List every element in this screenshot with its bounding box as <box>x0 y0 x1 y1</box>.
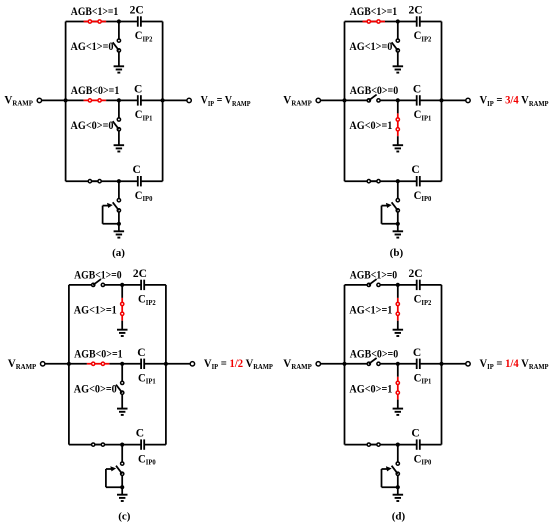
wire red closed segment AGB<0> (a) <box>84 99 107 101</box>
wire AG<0> (b) to ground <box>397 100 399 113</box>
ground below AG<0> (a) <box>114 145 125 151</box>
wire left bus vertical <box>344 22 346 182</box>
wire top branch middle segment <box>105 284 142 286</box>
switch AG<0> (c) contact circles <box>121 381 124 384</box>
arrowhead feedback (c) <box>110 466 116 471</box>
svg-text:AG<1>=0: AG<1>=0 <box>71 41 114 53</box>
ground below AG<1> (d) <box>393 330 404 336</box>
node ground junction (d) <box>396 485 400 489</box>
wire ground stub <box>121 487 123 495</box>
wire top branch right segment <box>141 21 163 23</box>
ground below AG<1> (c) <box>117 330 128 336</box>
switch bottom sampling switch closed (a) <box>88 180 101 182</box>
switch AG<0> (b) contact circles <box>396 118 399 121</box>
wire output segment <box>442 363 466 365</box>
node right bus / output junction (c) <box>164 362 168 366</box>
switch bottom sampling switch closed (b) <box>367 180 380 182</box>
switch AGB<1> (c) contact circles <box>92 283 95 286</box>
wire middle branch left segment <box>69 363 87 365</box>
svg-text:C: C <box>411 164 419 176</box>
wire bottom branch left segment <box>345 444 368 446</box>
switch AGB<0> (d) open blade <box>369 358 377 364</box>
wire red closed segment AG<1> (c) <box>121 298 123 321</box>
switch AG<0> (a) contact circles <box>117 118 120 121</box>
svg-text:(a): (a) <box>112 247 125 259</box>
wire bottom branch right segment <box>141 180 163 182</box>
node left bus / VRAMP junction (c) <box>67 362 71 366</box>
svg-text:(b): (b) <box>390 247 404 259</box>
switch bottom sampling switch closed (d) <box>367 444 380 446</box>
terminal VIP output <box>190 362 194 366</box>
wire middle branch left segment <box>66 99 84 101</box>
wire top branch left segment <box>66 21 84 23</box>
ground bottom (c) <box>117 495 128 501</box>
wire AG<0> (a) to ground <box>118 100 120 118</box>
switch bottom sampling switch closed (c) <box>92 444 105 446</box>
wire top branch middle segment <box>106 21 138 23</box>
wire feedback loop (b) <box>382 223 398 225</box>
svg-text:AG<1>=1: AG<1>=1 <box>349 305 392 317</box>
ground below AG<1> (a) <box>114 66 125 72</box>
ground bottom (b) <box>393 231 404 237</box>
wire red closed segment AGB<1> (b) <box>363 21 386 23</box>
wire output segment <box>442 99 466 101</box>
switch AGB<1> (b) contact circles <box>367 20 370 23</box>
switch AG<0> (a) open blade <box>113 121 119 129</box>
wire middle branch right segment <box>420 99 442 101</box>
node right bus / output junction (b) <box>439 98 443 102</box>
svg-text:AGB<0>=1: AGB<0>=1 <box>74 349 123 361</box>
wire middle branch middle segment <box>106 99 138 101</box>
ground below AG<1> (b) <box>393 66 404 72</box>
wire feedback loop (c) <box>106 486 122 488</box>
switch AGB<1> (a) contact circles <box>88 20 91 23</box>
wire right bus vertical <box>441 22 443 182</box>
wire output segment <box>163 99 187 101</box>
wire red closed segment AG<0> (d) <box>397 377 399 400</box>
switch auto-zero (a) open blade <box>113 202 119 210</box>
wire red closed segment AG<0> (b) <box>397 113 399 136</box>
switch AG<1> (d) contact circles <box>396 302 399 305</box>
wire middle branch left segment <box>345 99 368 101</box>
wire AG<0> (c) to ground <box>121 364 123 382</box>
svg-text:AG<1>=0: AG<1>=0 <box>349 41 392 53</box>
node left bus / VRAMP junction (d) <box>342 362 346 366</box>
switch auto-zero (c) contact circles <box>121 462 124 465</box>
node right bus / output junction (a) <box>161 98 165 102</box>
node top junction (a) <box>117 19 121 23</box>
capacitor CIP2 2C (d) <box>417 280 420 290</box>
svg-text:AGB<1>=0: AGB<1>=0 <box>350 270 398 282</box>
terminal VIP output <box>187 98 191 102</box>
switch auto-zero (b) contact circles <box>396 199 399 202</box>
ground below AG<0> (b) <box>393 145 404 151</box>
capacitor CIP2 2C (b) <box>417 16 420 26</box>
ground below AG<0> (c) <box>117 409 128 415</box>
svg-text:AGB<0>=0: AGB<0>=0 <box>350 349 399 361</box>
ground bottom (d) <box>393 495 404 501</box>
capacitor CIP1 C (b) <box>417 95 420 105</box>
svg-text:C: C <box>413 83 421 95</box>
wire top branch left segment <box>345 21 363 23</box>
switch AGB<1> (d) contact circles <box>367 283 370 286</box>
wire top branch through closed switch <box>363 21 386 23</box>
wire output segment <box>166 363 190 365</box>
terminal VIP output <box>466 98 470 102</box>
node middle junction (c) <box>120 362 124 366</box>
svg-text:C: C <box>413 347 421 359</box>
wire AG<1> (d) to ground <box>397 285 399 298</box>
svg-text:2C: 2C <box>408 5 422 17</box>
node ground junction (a) <box>117 222 121 226</box>
wire right bus vertical <box>441 285 443 445</box>
node ground junction (b) <box>396 222 400 226</box>
wire top branch right segment <box>420 21 442 23</box>
svg-text:AG<0>=0: AG<0>=0 <box>71 120 114 132</box>
wire ground stub <box>397 487 399 495</box>
node left bus / VRAMP junction (a) <box>64 98 68 102</box>
switch AGB<1> (d) open blade <box>369 279 377 285</box>
wire top branch right segment <box>144 284 166 286</box>
wire bottom branch middle segment <box>371 180 417 182</box>
switch AG<1> (a) open blade <box>113 42 119 50</box>
wire left bus vertical <box>65 22 67 182</box>
svg-text:AGB<1>=1: AGB<1>=1 <box>350 6 398 18</box>
wire bottom branch middle segment <box>92 180 138 182</box>
ground below AG<0> (d) <box>393 409 404 415</box>
node left bus / VRAMP junction (b) <box>342 98 346 102</box>
wire bottom branch right segment <box>144 444 166 446</box>
node top junction (c) <box>120 283 124 287</box>
capacitor CIP2 2C (c) <box>141 280 144 290</box>
wire top branch right segment <box>420 284 442 286</box>
node right bus / output junction (d) <box>439 362 443 366</box>
wire feedback loop (d) <box>382 486 398 488</box>
arrowhead feedback (b) <box>386 203 392 208</box>
node ground junction (c) <box>120 485 124 489</box>
svg-text:C: C <box>132 164 140 176</box>
switch AGB<0> (b) open blade <box>369 95 377 101</box>
wire AG<1> (c) to ground <box>121 285 123 298</box>
wire middle branch right segment <box>144 363 166 365</box>
wire top branch middle segment <box>385 21 417 23</box>
node middle junction (d) <box>396 362 400 366</box>
wire middle branch left segment <box>345 363 368 365</box>
terminal VRAMP input <box>45 363 69 365</box>
switch AGB<0> (c) contact circles <box>92 362 95 365</box>
wire switch to ground node <box>397 212 399 224</box>
svg-text:AG<0>=1: AG<0>=1 <box>349 383 392 395</box>
wire bottom branch middle segment <box>371 444 417 446</box>
node bottom junction (d) <box>396 443 400 447</box>
wire switch to ground node <box>118 212 120 224</box>
wire AG<1> (a) to ground <box>118 22 120 40</box>
capacitor CIP0 C (c) <box>141 439 144 449</box>
wire bottom junction to switch <box>397 181 399 198</box>
switch AG<1> (b) contact circles <box>396 39 399 42</box>
wire left bus vertical <box>344 285 346 445</box>
switch AG<1> (b) open blade <box>392 42 398 50</box>
switch AG<0> (d) contact circles <box>396 381 399 384</box>
wire middle branch middle segment <box>380 99 417 101</box>
capacitor CIP0 C (d) <box>417 439 420 449</box>
switch auto-zero (d) contact circles <box>396 462 399 465</box>
wire switch to ground node <box>397 475 399 487</box>
svg-text:2C: 2C <box>408 268 422 280</box>
wire bottom junction to switch <box>121 445 123 462</box>
arrowhead feedback (d) <box>386 466 392 471</box>
switch AGB<0> (d) contact circles <box>367 362 370 365</box>
svg-text:AG<0>=1: AG<0>=1 <box>349 120 392 132</box>
wire right bus vertical <box>162 22 164 182</box>
terminal VIP output <box>466 362 470 366</box>
svg-text:AGB<1>=0: AGB<1>=0 <box>74 270 122 282</box>
svg-text:C: C <box>136 427 144 439</box>
wire left bus vertical <box>68 285 70 445</box>
wire right bus vertical <box>165 285 167 445</box>
terminal VRAMP input <box>321 363 345 365</box>
ground bottom (a) <box>114 231 125 237</box>
wire switch to ground node <box>121 475 123 487</box>
svg-text:AG<1>=1: AG<1>=1 <box>74 305 117 317</box>
node top junction (b) <box>396 19 400 23</box>
node top junction (d) <box>396 283 400 287</box>
node middle junction (a) <box>117 98 121 102</box>
wire bottom branch middle segment <box>95 444 141 446</box>
wire bottom branch right segment <box>420 444 442 446</box>
svg-text:AGB<1>=1: AGB<1>=1 <box>71 6 119 18</box>
wire ground stub <box>118 224 120 232</box>
node bottom junction (b) <box>396 179 400 183</box>
capacitor CIP0 C (a) <box>138 176 141 186</box>
wire red closed segment AGB<1> (a) <box>84 21 107 23</box>
terminal VRAMP input <box>42 99 66 101</box>
svg-text:AG<0>=0: AG<0>=0 <box>74 383 117 395</box>
wire AG<0> (d) to ground <box>397 364 399 377</box>
wire middle branch right segment <box>420 363 442 365</box>
switch AGB<0> (b) contact circles <box>367 99 370 102</box>
wire middle branch right segment <box>141 99 163 101</box>
wire top branch left segment <box>345 284 368 286</box>
wire red closed segment AGB<0> (c) <box>87 363 110 365</box>
wire feedback loop (a) <box>103 223 119 225</box>
wire top branch left segment <box>69 284 92 286</box>
wire bottom junction to switch <box>118 181 120 198</box>
node middle junction (b) <box>396 98 400 102</box>
capacitor CIP1 C (a) <box>138 95 141 105</box>
svg-text:AGB<0>=0: AGB<0>=0 <box>350 85 399 97</box>
arrowhead feedback (a) <box>107 203 113 208</box>
svg-text:AGB<0>=1: AGB<0>=1 <box>71 85 120 97</box>
svg-text:2C: 2C <box>133 268 147 280</box>
wire top branch through closed switch <box>84 21 107 23</box>
switch AG<0> (c) open blade <box>116 385 122 393</box>
wire bottom junction to switch <box>397 445 399 462</box>
capacitor CIP1 C (d) <box>417 359 420 369</box>
svg-text:C: C <box>134 83 142 95</box>
svg-text:C: C <box>411 427 419 439</box>
wire bottom branch left segment <box>69 444 92 446</box>
switch AGB<0> (a) contact circles <box>88 99 91 102</box>
wire bottom branch left segment <box>66 180 89 182</box>
svg-text:(d): (d) <box>392 510 406 522</box>
switch auto-zero (c) open blade <box>116 466 122 474</box>
wire middle branch middle segment <box>380 363 417 365</box>
switch AGB<1> (c) open blade <box>93 279 101 285</box>
svg-text:(c): (c) <box>118 510 131 522</box>
svg-text:2C: 2C <box>130 5 144 17</box>
wire bottom branch left segment <box>345 180 368 182</box>
switch auto-zero (a) contact circles <box>117 199 120 202</box>
switch auto-zero (d) open blade <box>392 466 398 474</box>
switch auto-zero (b) open blade <box>392 202 398 210</box>
capacitor CIP1 C (c) <box>141 359 144 369</box>
capacitor CIP0 C (b) <box>417 176 420 186</box>
terminal VRAMP input <box>321 99 345 101</box>
capacitor CIP2 2C (a) <box>138 16 141 26</box>
switch AG<1> (a) contact circles <box>117 39 120 42</box>
switch AG<1> (c) contact circles <box>121 302 124 305</box>
svg-text:C: C <box>137 347 145 359</box>
wire top branch middle segment <box>380 284 417 286</box>
wire bottom branch right segment <box>420 180 442 182</box>
wire AG<1> (b) to ground <box>397 22 399 40</box>
wire red closed segment AG<1> (d) <box>397 298 399 321</box>
node bottom junction (a) <box>117 179 121 183</box>
wire ground stub <box>397 224 399 232</box>
wire middle branch middle segment <box>109 363 141 365</box>
node bottom junction (c) <box>120 443 124 447</box>
